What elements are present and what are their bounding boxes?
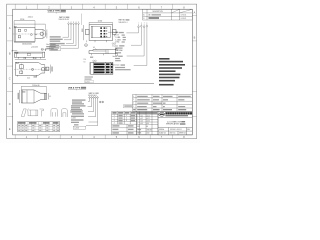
svg-text:13.10(13.25): 13.10(13.25) xyxy=(22,44,32,46)
view3 shield bottom view xyxy=(14,59,50,76)
svg-text:9.0: 9.0 xyxy=(84,62,86,64)
material list table xyxy=(133,94,193,111)
terminal spec table bottom left xyxy=(18,122,60,132)
svg-text:S: S xyxy=(126,120,127,122)
view4 dim circles xyxy=(112,43,116,45)
view2 receptacle front view xyxy=(82,22,116,42)
svg-text:L=1200: L=1200 xyxy=(71,118,76,120)
svg-text:0532: 0532 xyxy=(147,133,150,135)
svg-text:B: B xyxy=(143,18,144,20)
svg-text:Dimension: Dimension xyxy=(112,65,119,67)
contact arrangement striped block xyxy=(91,62,113,74)
company name line 2 xyxy=(165,115,188,116)
svg-text:12.1: 12.1 xyxy=(23,58,26,60)
title block xyxy=(158,112,192,135)
small annotation row left of material table xyxy=(124,105,133,108)
balloon leader lines A xyxy=(63,24,69,37)
pin table header blobs xyxy=(112,112,116,114)
svg-text:21.90±0.30: 21.90±0.30 xyxy=(32,85,40,87)
svg-text:±0.1: ±0.1 xyxy=(140,115,143,117)
tolerance table xyxy=(137,112,159,135)
svg-text:±0.25: ±0.25 xyxy=(147,118,151,120)
component callout labels left stack xyxy=(50,36,61,37)
svg-text:SHEET 1/1: SHEET 1/1 xyxy=(179,133,186,135)
zone tick marks xyxy=(7,4,197,139)
svg-text:1: 1 xyxy=(114,115,115,117)
svg-text:±0.2: ±0.2 xyxy=(140,118,143,120)
svg-text:4.5: 4.5 xyxy=(93,47,95,49)
svg-text:07.09.21: 07.09.21 xyxy=(181,18,187,20)
svg-text:±0.15: ±0.15 xyxy=(147,115,151,117)
svg-text:3: 3 xyxy=(114,120,115,122)
svg-text:±0.3: ±0.3 xyxy=(140,121,143,123)
notes text block xyxy=(159,58,170,60)
view4 shield long side view xyxy=(89,49,118,56)
section divider line xyxy=(13,82,154,84)
material table header row xyxy=(133,109,135,110)
svg-text:S/N-0532-11-01P: S/N-0532-11-01P xyxy=(59,19,70,21)
svg-text:4: 4 xyxy=(114,123,115,125)
pin table lower cells xyxy=(112,125,119,126)
terminal profile 2 xyxy=(27,109,37,116)
view3 right side dim xyxy=(50,65,52,74)
terminal profile 3 xyxy=(40,109,44,116)
svg-text:4.5±0.1: 4.5±0.1 xyxy=(28,17,33,19)
pin color table xyxy=(112,112,137,135)
svg-text:1 +5V: 1 +5V xyxy=(115,35,119,37)
zone numbers and letters xyxy=(9,6,196,139)
spec table header blobs xyxy=(18,122,26,123)
svg-text:2: 2 xyxy=(114,118,115,120)
svg-text:D: D xyxy=(9,103,11,106)
tolerance table texts xyxy=(137,112,157,114)
datum symbols right of balloons C xyxy=(99,101,103,103)
svg-text:±0.30: ±0.30 xyxy=(147,121,151,123)
theta datum symbol xyxy=(85,44,88,47)
view2b shield side view strip xyxy=(14,52,45,59)
svg-text:±0.4: ±0.4 xyxy=(140,123,143,125)
svg-text:C: C xyxy=(9,78,11,81)
view1 receptacle top view xyxy=(13,21,47,43)
svg-text:12.0: 12.0 xyxy=(84,59,87,61)
inner border frame xyxy=(13,9,193,135)
svg-text:DWG NO. 0532-11: DWG NO. 0532-11 xyxy=(170,129,182,131)
balloon digits A xyxy=(68,22,79,24)
svg-text:4.5: 4.5 xyxy=(49,96,51,98)
small bracket mark left of strip xyxy=(12,50,17,52)
spec table cell marks xyxy=(18,125,59,131)
svg-text:S/N-0532-1-1: S/N-0532-1-1 xyxy=(119,22,128,24)
svg-text:4 GND: 4 GND xyxy=(115,42,119,44)
company logo ellipse xyxy=(159,112,165,116)
balloon circles C xyxy=(86,97,98,126)
terminal profile 5 xyxy=(61,108,67,117)
svg-text:07.03.15: 07.03.15 xyxy=(181,15,187,17)
svg-text:±0.4: ±0.4 xyxy=(147,123,150,125)
leader from contact label to pins xyxy=(108,32,118,33)
datum symbols below view1 xyxy=(41,48,46,51)
view5 overmolded plug side view xyxy=(20,86,49,103)
svg-text:DESCRIPTION: DESCRIPTION xyxy=(153,11,163,13)
revision table top right xyxy=(143,9,193,20)
company name line 1 xyxy=(165,112,192,114)
svg-text:SPECIFICATION: SPECIFICATION xyxy=(166,123,180,126)
svg-text:UNIT mm: UNIT mm xyxy=(170,133,177,135)
balloon leader lines C xyxy=(88,98,90,101)
svg-text:21.90: 21.90 xyxy=(33,58,37,60)
balloon digits B xyxy=(138,22,147,24)
svg-text:5.12: 5.12 xyxy=(27,77,30,79)
balloon circles B xyxy=(126,24,147,66)
extension line right of balloons A xyxy=(81,14,83,26)
outer border frame xyxy=(7,4,197,139)
terminal profile 4 xyxy=(51,108,57,116)
marks below view3 xyxy=(34,76,38,77)
balloon leader lines B xyxy=(126,28,138,33)
balloon circles A xyxy=(61,23,80,48)
svg-text:REV: REV xyxy=(137,126,140,128)
svg-text:UL2725: UL2725 xyxy=(85,81,90,83)
svg-text:REV: REV xyxy=(187,129,190,131)
terminal profile 1 xyxy=(21,108,67,117)
view2 contact pins xyxy=(100,27,105,37)
svg-text:L=2000: L=2000 xyxy=(74,128,79,130)
circles above striped block xyxy=(93,60,97,62)
cable spec text under block xyxy=(85,76,94,77)
svg-text:12.50: 12.50 xyxy=(98,21,103,23)
svg-text:12.50: 12.50 xyxy=(20,19,24,21)
cable callout labels stack xyxy=(72,99,86,100)
